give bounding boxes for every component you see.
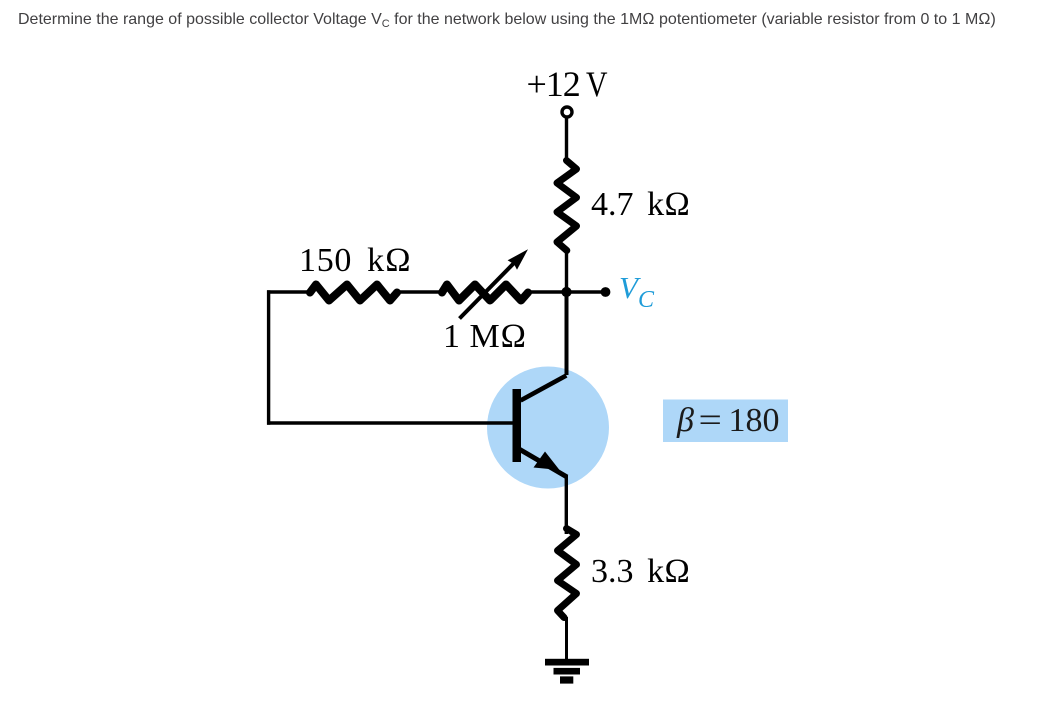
svg-text:C: C <box>638 287 655 313</box>
svg-text:+12: +12 <box>527 64 580 104</box>
svg-text:V: V <box>586 64 608 104</box>
svg-text:3.3 kΩ: 3.3 kΩ <box>591 553 690 590</box>
svg-text:=: = <box>699 401 722 439</box>
svg-text:1 MΩ: 1 MΩ <box>443 318 527 355</box>
svg-text:180: 180 <box>729 402 780 439</box>
svg-text:β: β <box>676 402 694 439</box>
svg-text:4.7 kΩ: 4.7 kΩ <box>591 186 690 223</box>
svg-text:150 kΩ: 150 kΩ <box>299 242 412 279</box>
